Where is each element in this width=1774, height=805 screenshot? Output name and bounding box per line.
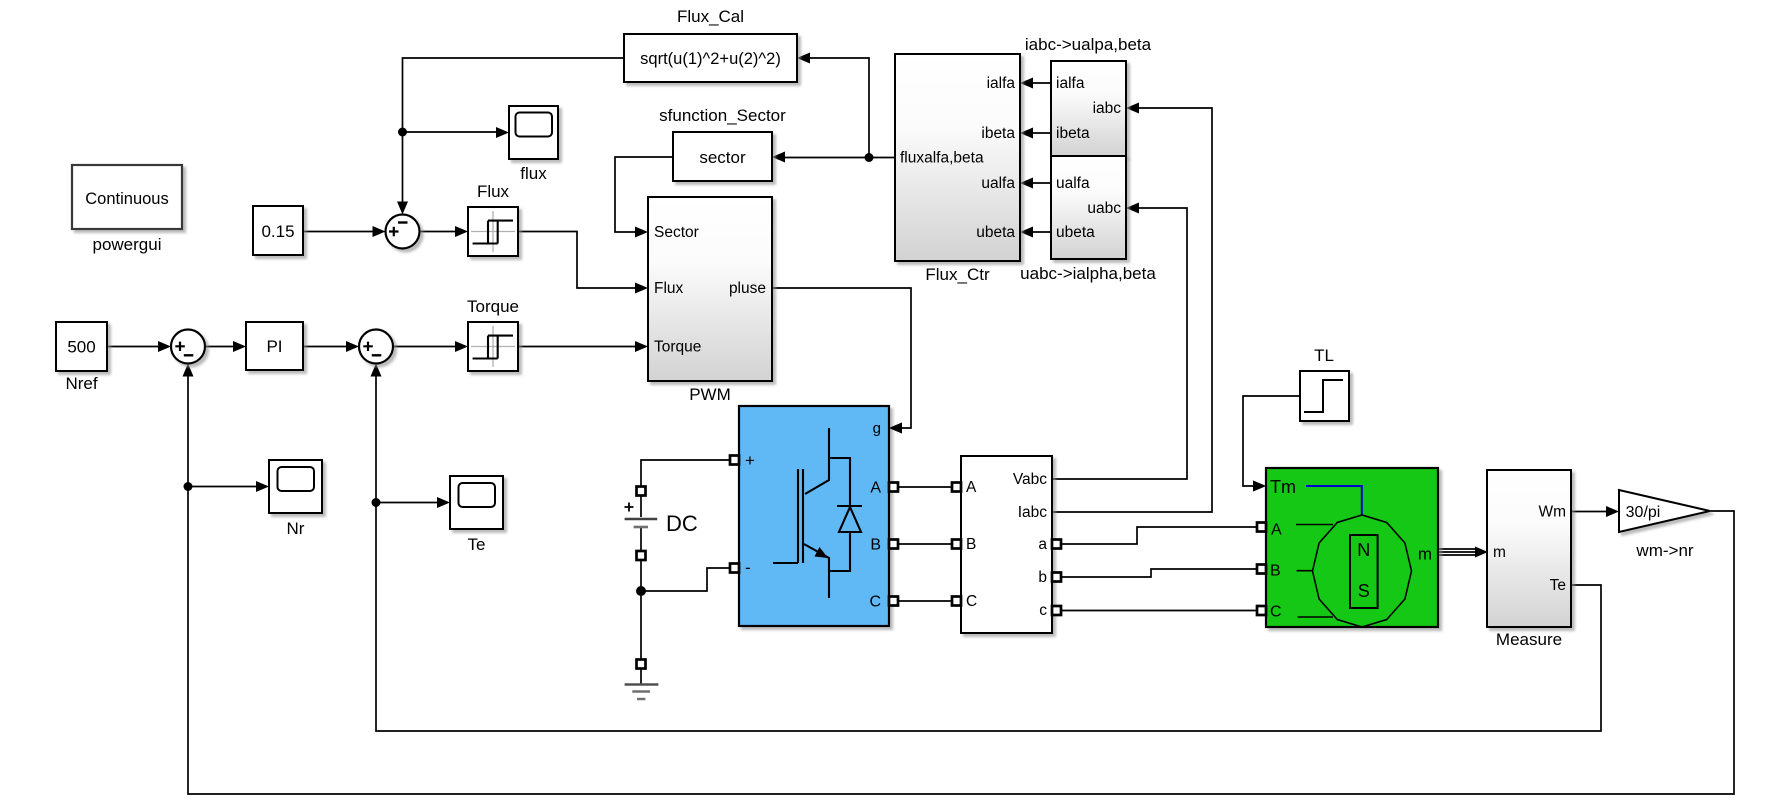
svg-text:Te: Te bbox=[468, 535, 486, 554]
svg-text:iabc: iabc bbox=[1093, 100, 1122, 117]
function block Flux_Cal bbox=[624, 7, 797, 82]
svg-text:ialfa: ialfa bbox=[987, 75, 1016, 92]
subsystem uabc to ialpha,beta bbox=[1020, 156, 1156, 283]
svg-text:ualfa: ualfa bbox=[981, 175, 1015, 192]
svg-text:ibeta: ibeta bbox=[981, 125, 1015, 142]
gain 30/pi bbox=[1619, 490, 1710, 560]
svg-text:A: A bbox=[1271, 522, 1282, 539]
measurement port squares bbox=[952, 483, 1061, 616]
svg-text:uabc: uabc bbox=[1087, 200, 1121, 217]
wire ibeta to Flux_Ctr bbox=[1020, 128, 1051, 139]
svg-text:Sector: Sector bbox=[654, 224, 699, 241]
DC voltage source bbox=[625, 487, 698, 561]
svg-text:fluxalfa,beta: fluxalfa,beta bbox=[900, 150, 984, 167]
svg-text:C: C bbox=[1270, 604, 1282, 621]
powergui block bbox=[72, 165, 182, 254]
scope flux bbox=[509, 106, 558, 183]
wire branch to flux scope bbox=[403, 127, 510, 138]
speed sum junction 1 bbox=[171, 330, 205, 364]
wire Measure Wm to gain bbox=[1571, 506, 1619, 517]
svg-text:B: B bbox=[966, 536, 976, 553]
svg-text:TL: TL bbox=[1314, 346, 1334, 365]
svg-text:PI: PI bbox=[266, 337, 282, 356]
junction dot Nr branch bbox=[184, 482, 193, 491]
svg-text:m: m bbox=[1418, 545, 1432, 564]
svg-text:Tm: Tm bbox=[1270, 477, 1296, 497]
flux sum junction bbox=[386, 215, 420, 249]
constant 500 Nref bbox=[56, 322, 107, 393]
junction dot DC minus node bbox=[636, 586, 646, 596]
subsystem Measure bbox=[1487, 470, 1571, 649]
ground bbox=[625, 660, 659, 700]
wire sector to PWM Sector input bbox=[615, 157, 673, 238]
svg-text:Continuous: Continuous bbox=[85, 190, 168, 208]
scope Te bbox=[450, 476, 503, 554]
wire measurement c to machine C bbox=[1052, 610, 1266, 612]
svg-text:B: B bbox=[870, 537, 881, 554]
svg-text:Vabc: Vabc bbox=[1013, 471, 1047, 488]
wire TL to machine Tm bbox=[1243, 396, 1300, 492]
relay Torque bbox=[467, 297, 519, 371]
subsystem PWM bbox=[648, 197, 772, 404]
svg-text:Measure: Measure bbox=[1496, 630, 1562, 649]
svg-text:ubeta: ubeta bbox=[976, 224, 1015, 241]
svg-text:Iabc: Iabc bbox=[1018, 504, 1048, 521]
bridge g input arrow bbox=[889, 423, 902, 434]
svg-text:PWM: PWM bbox=[689, 385, 731, 404]
svg-text:Flux: Flux bbox=[477, 182, 510, 201]
svg-text:A: A bbox=[966, 479, 977, 496]
junction dot flux measurement node bbox=[398, 128, 407, 137]
wire ubeta to Flux_Ctr bbox=[1020, 227, 1051, 238]
wire DC minus to bridge minus bbox=[641, 568, 736, 591]
svg-text:Nref: Nref bbox=[65, 374, 97, 393]
svg-text:A: A bbox=[870, 480, 881, 497]
svg-text:wm->nr: wm->nr bbox=[1635, 541, 1693, 560]
svg-text:Nr: Nr bbox=[287, 519, 305, 538]
IGBT inverter bridge (blue) bbox=[739, 406, 889, 626]
wire machine m to Measure (mechanical) bbox=[1438, 547, 1488, 558]
wire PWM pluse to bridge g input bbox=[772, 288, 911, 434]
svg-text:C: C bbox=[869, 594, 881, 611]
wire DC source bottom to ground bbox=[640, 559, 642, 660]
svg-text:Flux_Ctr: Flux_Ctr bbox=[925, 265, 990, 284]
machine port squares bbox=[1257, 523, 1266, 616]
svg-text:Te: Te bbox=[1550, 577, 1566, 594]
wire branch to Nr scope bbox=[188, 481, 269, 492]
asynchronous machine (green) bbox=[1266, 468, 1438, 627]
svg-text:sfunction_Sector: sfunction_Sector bbox=[659, 106, 786, 125]
svg-text:a: a bbox=[1038, 536, 1047, 553]
svg-text:DC: DC bbox=[666, 511, 698, 536]
svg-text:uabc->ialpha,beta: uabc->ialpha,beta bbox=[1020, 264, 1156, 283]
svg-text:B: B bbox=[1270, 563, 1281, 580]
wire fluxalfa,beta to sector input bbox=[772, 152, 895, 163]
svg-text:500: 500 bbox=[67, 338, 95, 357]
wire flux sum to Flux relay bbox=[420, 226, 469, 237]
wire Vabc to uabc input bbox=[1052, 203, 1187, 480]
wire Flux_Cal output down to flux sum bbox=[397, 58, 624, 215]
subsystem iabc to ialpha,beta bbox=[1025, 35, 1152, 156]
s-function block sector bbox=[659, 106, 786, 181]
svg-text:ualfa: ualfa bbox=[1056, 175, 1090, 192]
wire gain feedback to speed sum1 bbox=[183, 364, 1735, 795]
wire Flux relay to PWM Flux input bbox=[518, 232, 648, 294]
wire speed sum2 to Torque relay bbox=[393, 341, 468, 352]
svg-text:C: C bbox=[966, 593, 977, 610]
svg-text:Flux_Cal: Flux_Cal bbox=[677, 7, 744, 26]
svg-text:-: - bbox=[745, 558, 751, 577]
wire Torque relay to PWM Torque input bbox=[518, 341, 648, 352]
svg-text:ibeta: ibeta bbox=[1056, 125, 1090, 142]
svg-text:pluse: pluse bbox=[729, 280, 766, 297]
wire 0.15 to flux sum bbox=[303, 226, 386, 237]
wire measurement b to machine B bbox=[1052, 569, 1266, 577]
svg-text:iabc->ualpa,beta: iabc->ualpa,beta bbox=[1025, 35, 1152, 54]
scope Nr bbox=[269, 460, 322, 538]
wire 500 to speed sum1 bbox=[107, 341, 171, 352]
svg-text:ubeta: ubeta bbox=[1056, 224, 1095, 241]
svg-text:g: g bbox=[873, 420, 881, 437]
svg-text:m: m bbox=[1493, 544, 1506, 561]
svg-text:powergui: powergui bbox=[93, 235, 162, 254]
step source TL bbox=[1300, 346, 1349, 421]
wire bridge A to measurement A bbox=[889, 486, 961, 488]
svg-text:sqrt(u(1)^2+u(2)^2): sqrt(u(1)^2+u(2)^2) bbox=[640, 50, 781, 68]
wire Measure Te feedback to speed sum2 bbox=[371, 364, 1602, 732]
svg-text:flux: flux bbox=[520, 164, 547, 183]
bridge port squares bbox=[730, 456, 898, 606]
svg-text:Torque: Torque bbox=[467, 297, 519, 316]
wire branch fluxalfa,beta up to Flux_Cal input bbox=[797, 53, 869, 158]
svg-text:Flux: Flux bbox=[654, 280, 684, 297]
subsystem Flux_Ctr bbox=[895, 54, 1020, 284]
svg-text:30/pi: 30/pi bbox=[1626, 504, 1661, 521]
wire measurement a to machine A bbox=[1052, 527, 1266, 544]
svg-text:+: + bbox=[745, 451, 755, 470]
svg-text:ialfa: ialfa bbox=[1056, 75, 1085, 92]
speed sum junction 2 bbox=[359, 330, 393, 364]
three-phase V-I measurement block bbox=[961, 456, 1052, 633]
svg-text:sector: sector bbox=[699, 148, 746, 167]
wire ialfa to Flux_Ctr bbox=[1020, 78, 1051, 89]
controller PI bbox=[246, 322, 303, 370]
svg-text:N: N bbox=[1357, 540, 1370, 560]
wire bridge C to measurement C bbox=[889, 600, 961, 602]
wire Iabc to iabc input bbox=[1052, 103, 1212, 513]
machine Tm input arrow bbox=[1253, 481, 1266, 492]
wire speed sum1 to PI bbox=[205, 341, 246, 352]
wire ualfa to Flux_Ctr bbox=[1020, 178, 1051, 189]
junction dot Te branch bbox=[372, 498, 381, 507]
svg-text:Torque: Torque bbox=[654, 339, 701, 356]
constant 0.15 bbox=[253, 206, 303, 255]
svg-text:Wm: Wm bbox=[1538, 504, 1566, 521]
svg-text:c: c bbox=[1039, 602, 1047, 619]
wire PI to speed sum2 bbox=[303, 341, 359, 352]
wire DC plus to bridge plus bbox=[641, 460, 736, 487]
junction dot fluxalfa,beta node bbox=[865, 153, 874, 162]
svg-text:b: b bbox=[1038, 569, 1047, 586]
wire bridge B to measurement B bbox=[889, 543, 961, 545]
svg-text:0.15: 0.15 bbox=[261, 222, 294, 241]
svg-text:S: S bbox=[1358, 581, 1370, 601]
wire branch to Te scope bbox=[376, 497, 450, 508]
relay Flux bbox=[468, 182, 518, 256]
